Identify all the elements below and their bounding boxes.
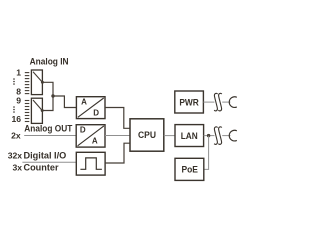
svg-text:LAN: LAN xyxy=(181,131,198,141)
svg-text:1: 1 xyxy=(16,67,21,77)
isolation break squiggle PWR xyxy=(214,93,222,111)
converter DAC diagonal xyxy=(78,126,104,146)
wire pulse to CPU xyxy=(105,143,130,163)
junction dot LAN xyxy=(207,134,210,137)
wire ADC to CPU xyxy=(105,108,130,129)
svg-text:2x: 2x xyxy=(11,130,21,140)
svg-text:3x: 3x xyxy=(13,163,23,173)
svg-text:A: A xyxy=(81,98,87,107)
isolation break squiggle LAN xyxy=(214,127,222,145)
wire junction to ADC xyxy=(53,96,76,108)
svg-text:D: D xyxy=(80,125,86,134)
svg-text:PoE: PoE xyxy=(181,165,198,175)
svg-text:CPU: CPU xyxy=(138,130,156,141)
plug arc PWR xyxy=(229,97,237,108)
wire break to plug PWR xyxy=(222,101,230,103)
input ticks mux2 xyxy=(25,101,30,122)
multiplexer MUX2 wiper dot xyxy=(41,109,44,112)
svg-text:32x: 32x xyxy=(8,151,23,161)
wire DAC to CPU xyxy=(105,135,130,137)
svg-text:PWR: PWR xyxy=(179,97,199,107)
svg-text:Analog OUT: Analog OUT xyxy=(24,124,72,134)
multiplexer MUX1 wiper dot xyxy=(41,81,44,84)
converter DAC box xyxy=(76,125,105,147)
digital pulse box xyxy=(76,152,105,175)
input ticks mux1 xyxy=(25,73,30,94)
svg-text:D: D xyxy=(93,109,99,118)
pin dots group1 xyxy=(13,78,15,85)
svg-text:Analog IN: Analog IN xyxy=(30,56,69,66)
junction node dot xyxy=(51,94,54,97)
LAN box xyxy=(175,125,204,147)
svg-text:Digital I/O: Digital I/O xyxy=(24,151,67,161)
wire CPU to LAN xyxy=(164,135,175,137)
svg-text:16: 16 xyxy=(11,114,21,124)
converter ADC box xyxy=(76,97,105,119)
svg-text:Counter: Counter xyxy=(24,163,60,173)
PWR box xyxy=(175,91,204,113)
CPU box xyxy=(130,119,164,151)
pin dots group2 xyxy=(13,106,15,113)
wire break to plug LAN xyxy=(222,135,230,137)
wire PWR to break xyxy=(203,101,214,103)
plug arc LAN xyxy=(229,130,237,141)
multiplexer MUX1 box xyxy=(31,70,42,95)
PoE box xyxy=(175,158,204,180)
multiplexer MUX2 switch diagonal xyxy=(33,100,42,111)
multiplexer MUX1 switch diagonal xyxy=(33,72,42,83)
digital pulse waveform xyxy=(80,158,102,169)
wire analog out input xyxy=(24,135,76,137)
wire mux1 output xyxy=(42,82,53,96)
converter ADC diagonal xyxy=(78,98,104,117)
wire LAN junction to PoE xyxy=(204,136,209,170)
wire LAN to break xyxy=(204,135,215,137)
wire digital input xyxy=(22,161,76,163)
svg-text:A: A xyxy=(92,137,98,146)
multiplexer MUX2 box xyxy=(31,98,42,123)
wire mux2 output xyxy=(42,96,53,111)
svg-text:9: 9 xyxy=(16,96,21,106)
